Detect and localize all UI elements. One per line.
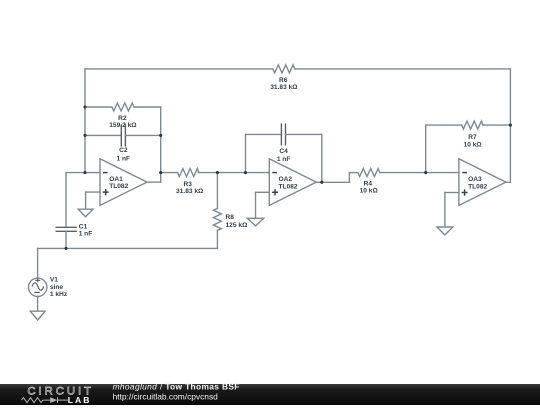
op-amp OA2 [269,159,316,206]
wire C2 row left lead [85,134,121,136]
wire OA2 non-inverting input lead [256,191,270,193]
svg-text:C1: C1 [79,224,88,231]
node at OA1 inverting input [83,171,86,174]
svg-text:R2: R2 [118,115,127,122]
ground for OA2 [247,218,263,226]
svg-text:1 kHz: 1 kHz [50,291,68,298]
wire R3 row left lead [161,172,178,174]
svg-text:1 nF: 1 nF [117,155,131,162]
node at OA1 output to R3 [159,171,162,174]
svg-text:sine: sine [50,284,64,291]
wire OA2 ground stem [255,192,257,218]
wire OA1 non-inverting input lead [86,191,100,193]
wire OA3 ground stem [444,193,446,228]
svg-text:R3: R3 [183,181,192,188]
wire R3 to OA2 inverting input [199,172,270,174]
wire C4 left vertical [245,134,247,172]
wire R7 row right lead [483,124,511,126]
op-amp OA1 [100,159,147,206]
svg-text:TL082: TL082 [468,183,487,190]
svg-text:R8: R8 [226,214,235,221]
node at R4 OA3 vertical [424,171,427,174]
wire OA2 output lead [316,181,349,183]
wire OA2 feedback right vertical [321,134,323,182]
wire top rail right segment [295,68,510,70]
svg-text:TL082: TL082 [279,183,298,190]
capacitor C4 [281,124,285,145]
wire R8 bottom lead [216,231,218,248]
svg-text:R6: R6 [279,77,288,84]
node at top vertical and C2 row [83,134,86,137]
svg-text:1 nF: 1 nF [79,231,93,238]
wire jog up to R4 row [348,173,350,183]
wire R2 row right lead [134,106,161,108]
wire V1 top lead [37,248,39,278]
svg-text:125 kΩ: 125 kΩ [226,222,249,229]
wire R4 to OA3 inverting input [380,172,459,174]
node at R3 R8 junction [216,171,219,174]
op-amp OA3 [459,159,506,206]
wire OA3 non-inverting input lead [445,192,459,194]
wire left vertical from top rail to OA1 inverting node [84,69,86,173]
svg-text:10 kΩ: 10 kΩ [464,141,483,148]
resistor R6 [273,65,295,73]
capacitor C1 [56,227,76,231]
node at R7 row and right vertical [509,124,512,127]
wire OA1 inverting input row [66,172,100,174]
svg-text:http://circuitlab.com/cpvcnsd: http://circuitlab.com/cpvcnsd [113,391,219,401]
wire C4 row left lead [246,133,282,135]
wire OA3 output lead [506,181,511,183]
wire C4 row right lead [286,133,322,135]
svg-text:OA3: OA3 [468,176,482,183]
CircuitLab logo resistor and diode squiggle [22,397,68,403]
wire top rail left segment [85,68,273,70]
svg-text:V1: V1 [50,277,58,284]
svg-text:R7: R7 [468,134,477,141]
svg-text:mhoaglund / Tow Thomas BSF: mhoaglund / Tow Thomas BSF [113,382,240,392]
svg-text:C4: C4 [279,148,288,155]
svg-text:TL082: TL082 [109,183,128,190]
wire V1 bottom lead [37,296,39,311]
wire C1 bottom lead [65,231,67,248]
wire R8 top lead [216,173,218,209]
resistor R3 [178,169,199,177]
ground for V1 [30,311,45,320]
wire OA1 ground stem [85,192,87,209]
voltage source V1 [29,278,47,296]
resistor R8 [213,208,221,230]
svg-text:159.2 kΩ: 159.2 kΩ [109,122,137,129]
svg-text:OA2: OA2 [279,176,293,183]
capacitor C2 [121,125,125,146]
svg-text:31.83 kΩ: 31.83 kΩ [270,84,298,91]
svg-text:C2: C2 [119,147,128,154]
wire bottom rail [38,247,218,249]
resistor R4 [358,169,380,177]
wire OA1 output lead [147,181,161,183]
resistor R7 [462,121,483,129]
svg-text:10 kΩ: 10 kΩ [360,188,379,195]
wire left vertical to C1 [65,173,67,228]
wire R2 row left lead [85,106,112,108]
node at C1 and bottom rail [64,247,67,250]
svg-text:OA1: OA1 [109,176,123,183]
svg-text:31.83 kΩ: 31.83 kΩ [176,188,204,195]
node at C2 row and feedback vertical [159,134,162,137]
node at C4 branch [244,171,247,174]
wire right vertical of OA1 feedback loop [160,107,162,182]
svg-text:1 nF: 1 nF [277,156,291,163]
node at top vertical and R2 row [83,105,86,108]
node at OA2 output [320,181,323,184]
wire C2 row right lead [125,134,160,136]
wire R7 left vertical [425,125,427,173]
wire right vertical from OA3 output to top rail [509,69,511,182]
wire R7 row left lead [426,124,462,126]
ground for OA3 [437,227,453,235]
resistor R2 [112,103,134,111]
ground for OA1 [78,209,93,217]
wire R4 row left lead [349,172,357,174]
svg-text:LAB: LAB [68,395,92,405]
